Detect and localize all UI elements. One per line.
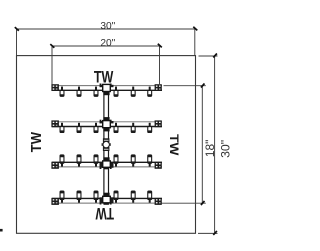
spine junction — [100, 117, 114, 131]
lamp — [94, 191, 98, 203]
spine junction — [100, 193, 114, 205]
lamp — [60, 191, 64, 203]
dimension 30in right — [198, 56, 218, 233]
lamp — [131, 123, 135, 133]
svg-text:30": 30" — [100, 21, 115, 32]
lamp — [131, 87, 135, 97]
lamp — [77, 155, 81, 167]
lamp — [60, 87, 64, 97]
connector block — [155, 120, 162, 127]
connector block — [51, 84, 59, 91]
lamp — [77, 191, 81, 203]
light bar 4 — [52, 198, 162, 203]
lamp — [94, 87, 98, 97]
lamp — [114, 155, 118, 167]
lamp — [148, 87, 152, 97]
lamp — [77, 87, 81, 97]
lamp — [148, 191, 152, 203]
light bar 1 — [52, 86, 162, 91]
svg-text:TW: TW — [95, 204, 114, 223]
spine rails — [104, 84, 109, 204]
dimension 20in top — [52, 46, 160, 85]
connector block — [51, 198, 59, 205]
lamp — [94, 123, 98, 133]
lamp — [148, 155, 152, 167]
lamp — [131, 191, 135, 203]
lamp — [114, 123, 118, 133]
lamp — [60, 155, 64, 167]
lamp — [131, 155, 135, 167]
spine junction — [100, 84, 114, 96]
lamp — [148, 123, 152, 133]
light bar 3 — [52, 162, 162, 167]
dimension 30in top — [17, 29, 196, 56]
lamp — [114, 191, 118, 203]
svg-text:TW: TW — [167, 134, 181, 156]
edge mark bottom-left — [0, 229, 3, 232]
connector block — [155, 162, 162, 169]
svg-text:18": 18" — [205, 140, 217, 158]
center hub — [102, 138, 111, 151]
outer square 30x30 — [17, 56, 196, 234]
lamp — [60, 123, 64, 133]
light bar 2 — [52, 122, 162, 127]
spine junction — [100, 157, 114, 169]
lamp — [77, 123, 81, 133]
lamp — [114, 87, 118, 97]
lamp — [94, 155, 98, 167]
connector block — [51, 120, 59, 127]
connector block — [51, 162, 59, 169]
connector block — [155, 84, 162, 91]
dimension 18in right — [161, 86, 206, 204]
connector block — [155, 198, 162, 205]
svg-text:TW: TW — [29, 132, 45, 152]
svg-text:20": 20" — [100, 38, 115, 49]
svg-text:30": 30" — [219, 140, 233, 158]
